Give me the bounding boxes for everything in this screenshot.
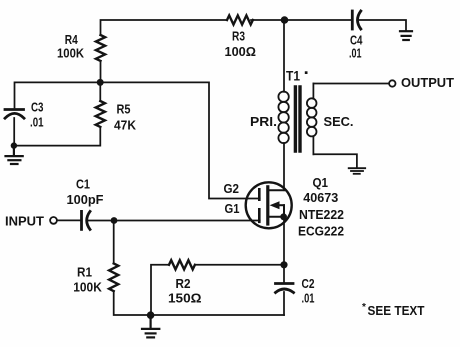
wire INPUT to C1 (57, 219, 80, 221)
capacitor C4 (352, 11, 361, 29)
wire C1 to G1 through input node (89, 220, 260, 222)
Q1 drain lead (268, 189, 284, 191)
wire node B left to C3 (15, 82, 101, 107)
T1 primary winding (278, 92, 288, 144)
svg-text:OUTPUT: OUTPUT (401, 75, 454, 90)
wire source down to source node (283, 217, 285, 265)
svg-text:T1: T1 (286, 68, 300, 84)
Q1 source lead (268, 216, 284, 218)
wire top-left horizontal from R4 top to R3 (101, 20, 228, 35)
svg-text:R3: R3 (232, 29, 245, 44)
svg-text:Q1: Q1 (313, 175, 329, 190)
wire C2 bottom to bottom rail (283, 292, 285, 315)
svg-text:.01: .01 (302, 291, 315, 306)
wire R5 top to node B (99, 82, 101, 101)
label T1 asterisk (305, 71, 308, 74)
svg-text:INPUT: INPUT (5, 214, 44, 229)
transistor Q1 dual-gate MOSFET (246, 182, 292, 228)
Q1 substrate arrow (270, 201, 280, 209)
wire R3 to C4 through node A (251, 19, 352, 21)
ground (bottom, below R1/R2 rail) (142, 315, 159, 337)
T1 core bars (294, 87, 297, 151)
svg-text:C1: C1 (76, 177, 90, 192)
wire source node down to C2 (283, 265, 285, 283)
capacitor C2 (276, 284, 294, 293)
T1 primary top lead from node A (283, 20, 285, 92)
T1 secondary bottom lead (312, 136, 314, 154)
wire node B right and down to G2 (100, 82, 260, 198)
ground (top right) (400, 31, 412, 40)
svg-text:100K: 100K (57, 46, 85, 61)
svg-text:ECG222: ECG222 (298, 224, 344, 239)
resistor R1 (109, 264, 118, 292)
wire drain up to transformer primary (283, 143, 285, 190)
resistor R3 (227, 15, 253, 24)
capacitor C3 (5, 110, 24, 119)
terminal OUTPUT circle (389, 80, 395, 86)
svg-text:G2: G2 (224, 181, 240, 196)
Q1 body circle (246, 182, 292, 228)
svg-text:NTE222: NTE222 (299, 207, 344, 222)
svg-text:40673: 40673 (303, 190, 338, 205)
svg-text:R2: R2 (176, 276, 191, 291)
svg-text:C3: C3 (31, 100, 44, 115)
wire C3 bottom to ground dot (13, 118, 15, 146)
svg-text:PRI.: PRI. (250, 114, 277, 129)
svg-text:*: * (362, 302, 366, 313)
svg-text:47K: 47K (114, 118, 137, 133)
capacitor C1 (82, 211, 91, 229)
terminal INPUT circle (50, 217, 57, 224)
svg-text:.01: .01 (30, 115, 44, 130)
wire C4 to ground top-right (360, 20, 407, 30)
node C3-ground junction dot (11, 142, 17, 148)
svg-text:150Ω: 150Ω (168, 291, 202, 306)
node input junction dot (111, 217, 118, 224)
Q1 channel bar (266, 187, 269, 224)
wire input node down to R1 (113, 221, 115, 264)
resistor R5 (96, 101, 105, 127)
Q1 gate-1 bar (258, 209, 261, 222)
node bottom-ground junction dot (147, 311, 155, 319)
wire R1 bottom to C2 bottom (bottom rail) (114, 291, 284, 315)
resistor R2 (169, 260, 195, 269)
svg-text:G1: G1 (225, 201, 240, 216)
svg-text:SEC.: SEC. (324, 114, 354, 129)
Q1 source-substrate dot (280, 213, 287, 220)
wire R2 right to source node (195, 264, 284, 266)
Q1 substrate lead (278, 204, 284, 206)
wire R4 bottom to node B (100, 61, 102, 82)
svg-text:100K: 100K (73, 280, 102, 295)
node B junction dot (97, 79, 104, 86)
T1 secondary winding (307, 98, 317, 136)
ground (below C3) (6, 148, 23, 164)
svg-text:R1: R1 (77, 265, 92, 280)
node A junction dot (281, 16, 289, 24)
Q1 gate-2 bar (258, 189, 261, 199)
svg-text:R5: R5 (117, 102, 131, 117)
wire secondary bottom to ground (313, 154, 357, 167)
ground (transformer secondary) (349, 168, 366, 174)
T1 secondary top lead (312, 84, 314, 99)
svg-text:100Ω: 100Ω (225, 44, 257, 59)
wire secondary to output terminal (313, 83, 389, 85)
svg-text:SEE TEXT: SEE TEXT (368, 303, 425, 318)
svg-text:100pF: 100pF (67, 192, 104, 207)
node source junction dot (280, 261, 287, 268)
svg-text:.01: .01 (349, 46, 362, 61)
transformer T1 (278, 20, 316, 154)
resistor R4 (96, 35, 105, 61)
wire R2 left branch (151, 265, 169, 315)
svg-text:C2: C2 (302, 276, 315, 291)
Q1 substrate-source link (283, 205, 285, 217)
wire C3 ground node to R5 bottom (14, 127, 100, 146)
